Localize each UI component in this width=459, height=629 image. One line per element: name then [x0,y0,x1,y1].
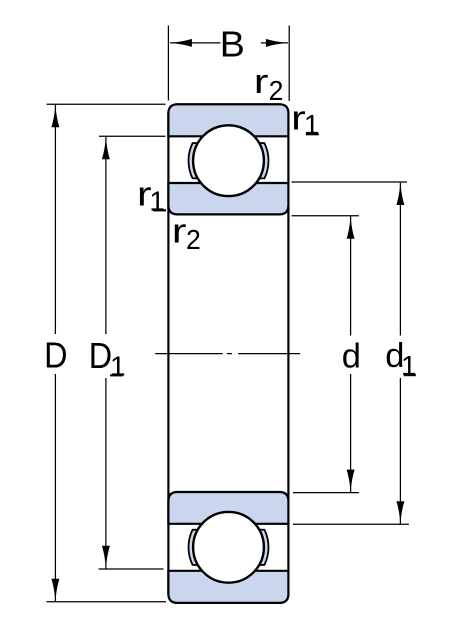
centerline [155,353,300,355]
svg-text:r: r [172,212,187,250]
dimension d arrow top [347,216,355,239]
dimension d arrow bottom [347,470,355,493]
svg-text:1: 1 [401,350,417,381]
svg-text:D: D [44,336,67,376]
inner ring upper band [168,183,288,214]
dimension D1 arrow top [102,136,110,159]
dimension D arrow top [51,104,59,127]
upper raceway shoulder left [189,143,198,178]
dimension d extension lines [292,216,359,493]
dimension d1 arrow bottom [396,501,404,524]
upper ball [193,125,264,196]
inner ring lower band [168,492,288,524]
svg-text:2: 2 [186,223,201,255]
svg-text:d: d [342,338,361,376]
dimension D arrow bottom [51,579,59,602]
dimension D extension lines [47,104,167,602]
svg-text:D: D [89,336,112,376]
dimension B extension lines [168,26,289,102]
outer ring upper band [168,104,288,136]
svg-text:2: 2 [269,74,284,106]
outer ring lower band [168,571,288,603]
label r1 right subscript foot bar [306,133,319,135]
label r1 left subscript foot bar [153,209,166,211]
svg-text:B: B [220,23,245,64]
upper raceway shoulder right [259,143,268,178]
dimension D1 line [105,137,107,569]
dimension B arrow left [169,39,192,47]
dimension D line [54,105,56,602]
lower raceway shoulder right [259,530,268,565]
svg-text:1: 1 [110,350,126,381]
lower ball [193,512,264,583]
dimension d line [350,217,352,493]
dimension B arrow right [266,39,289,47]
svg-text:1: 1 [304,109,320,140]
dimension D1 extension lines [99,136,166,569]
label D1 subscript foot bar [110,374,123,376]
dimension d1 line [399,183,401,524]
lower raceway shoulder left [189,530,198,565]
dimension d1 arrow top [396,182,404,205]
label d1 subscript foot bar [404,374,416,376]
svg-text:r: r [254,63,269,101]
dimension d1 extension lines [292,182,409,524]
dimension B line [170,42,288,44]
bearing outer silhouette [168,104,288,603]
dimension D1 arrow bottom [102,546,110,569]
svg-text:1: 1 [149,185,165,216]
